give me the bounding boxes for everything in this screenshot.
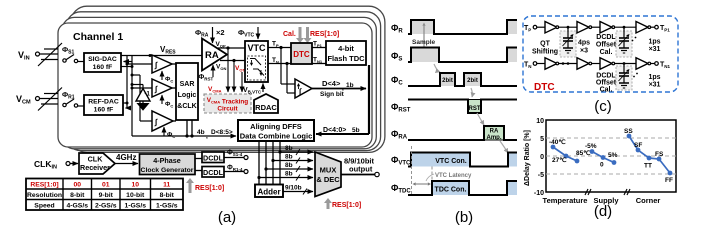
- svg-text:Offset: Offset: [596, 80, 617, 87]
- waveform PHI_S: [411, 48, 439, 63]
- svg-text:TT: TT: [644, 163, 652, 170]
- svg-text:D<4>: D<4>: [322, 79, 341, 88]
- svg-text:1-GS/s: 1-GS/s: [124, 202, 146, 209]
- wire DAC bus vertical 2: [131, 56, 133, 137]
- svg-text:Receiver: Receiver: [80, 163, 110, 172]
- svg-text:00: 00: [73, 181, 81, 188]
- svg-text:RDAC: RDAC: [255, 103, 277, 112]
- buffer B3 top: [600, 21, 612, 33]
- DTC detail dashed border: [523, 16, 678, 92]
- block 4-Phase Clock Generator: [140, 154, 196, 175]
- block VTC: [245, 41, 268, 82]
- wire 8/9/10bit output: [341, 174, 375, 176]
- wire to clock generator: [115, 163, 138, 165]
- wire V_RES: [121, 55, 202, 57]
- wire T_P chain: [537, 26, 545, 28]
- clock PHI_C into comparator 1: [161, 71, 163, 80]
- plot frame: [546, 120, 676, 192]
- svg-text:RES[1:0]: RES[1:0]: [310, 31, 339, 38]
- svg-text:Resolution: Resolution: [27, 192, 62, 199]
- svg-text:4-bit: 4-bit: [338, 44, 354, 53]
- arrow PHI_S to PHI_C: [434, 64, 440, 72]
- svg-text:5: 5: [540, 136, 544, 143]
- wire 8b buses into MUX: [278, 150, 281, 153]
- svg-text:9/10b: 9/10b: [285, 185, 302, 192]
- svg-text:DCDL: DCDL: [203, 154, 224, 163]
- svg-text:Cal.: Cal.: [600, 87, 613, 94]
- svg-text:1ps: 1ps: [648, 39, 660, 46]
- svg-text:Aligning DFFS: Aligning DFFS: [250, 122, 302, 131]
- svg-text:Shifting: Shifting: [532, 49, 558, 56]
- svg-text:RES[1:0]: RES[1:0]: [30, 181, 58, 188]
- wire T_P1: [312, 47, 326, 49]
- svg-text:×31: ×31: [649, 46, 661, 53]
- svg-text:5b: 5b: [352, 127, 360, 134]
- arrow PHI_C to RST: [471, 88, 472, 97]
- svg-text:8b: 8b: [285, 145, 293, 152]
- svg-text:2bit: 2bit: [442, 78, 453, 84]
- svg-text:Offset: Offset: [596, 42, 617, 49]
- comparator 1 (integrator): [152, 55, 172, 73]
- block DCDL 2: [202, 167, 224, 178]
- block REF-DAC: [84, 95, 123, 115]
- block Aligning DFFS Data Combine Logic: [238, 120, 314, 141]
- arrow RA Amp to PHI_VTC: [500, 141, 508, 153]
- svg-text:1b: 1b: [346, 82, 354, 89]
- svg-text:DTC: DTC: [534, 82, 555, 93]
- waveform PHI_R: [411, 20, 434, 34]
- dots ellipsis top: [632, 40, 634, 42]
- block Adder: [255, 185, 283, 198]
- svg-text:D<4:0>: D<4:0>: [323, 127, 346, 134]
- svg-text:Corner: Corner: [636, 196, 661, 205]
- wire V_IN sampling network: [40, 53, 59, 55]
- wire T_P: [268, 47, 291, 49]
- svg-text:0: 0: [540, 154, 544, 161]
- svg-text:4b: 4b: [197, 129, 205, 136]
- svg-text:2bit: 2bit: [467, 78, 478, 84]
- wire D<4:0> 5b bus from TDC to Aligning logic: [368, 65, 370, 134]
- svg-text:01: 01: [102, 181, 110, 188]
- svg-text:Sign bit: Sign bit: [320, 91, 345, 98]
- buffer B1 top: [545, 21, 557, 33]
- node T_P1: [655, 25, 659, 29]
- wire comparator outputs to SAR: [172, 63, 176, 65]
- data series corner: [629, 136, 670, 173]
- channel frame 4: [71, 6, 385, 152]
- svg-text:×3: ×3: [580, 48, 588, 55]
- svg-text:Cal.: Cal.: [283, 31, 296, 38]
- svg-text:8-bit: 8-bit: [160, 192, 175, 199]
- svg-text:REF-DAC: REF-DAC: [88, 99, 119, 106]
- wire comparator input stubs: [132, 87, 152, 89]
- data series temperature: [553, 147, 577, 161]
- svg-text:MUX: MUX: [320, 166, 337, 175]
- block MUX & DEC: [315, 152, 341, 197]
- wire to DCDL 1: [195, 158, 202, 160]
- svg-text:11: 11: [163, 181, 170, 188]
- svg-text:Temperature: Temperature: [543, 196, 588, 205]
- svg-text:4-GS/s: 4-GS/s: [66, 202, 88, 209]
- wire DAC bus vertical 1: [126, 56, 128, 109]
- waveform PHI_VTC: [411, 153, 470, 167]
- wire T_N1: [312, 63, 326, 65]
- arrow RST to RA Amp: [477, 113, 484, 125]
- svg-text:27℃: 27℃: [552, 156, 567, 164]
- signal RES[1:0] into MUX: [324, 198, 332, 209]
- wire to DCDL 2: [195, 170, 202, 172]
- wire arrow into REF-DAC: [126, 107, 128, 109]
- wire arrow into SIG-DAC: [124, 61, 133, 63]
- block DCDL 1: [202, 152, 224, 163]
- svg-text:RST: RST: [469, 106, 481, 112]
- svg-text:4ps: 4ps: [578, 40, 590, 47]
- wire sign bit output D<4>: [312, 88, 366, 90]
- svg-text:Sample: Sample: [412, 39, 436, 46]
- buffer B2 bottom: [577, 58, 589, 70]
- channel frame 1: [58, 23, 372, 147]
- svg-text:FF: FF: [665, 177, 673, 184]
- svg-text:Adder: Adder: [257, 188, 280, 197]
- svg-text:9-bit: 9-bit: [99, 192, 114, 199]
- svg-text:Flash TDC: Flash TDC: [327, 54, 365, 63]
- svg-text:4-Phase: 4-Phase: [153, 156, 181, 165]
- svg-text:Speed: Speed: [34, 202, 54, 209]
- waveform PHI_TDC: [432, 181, 469, 195]
- wire V_OP output: [218, 47, 245, 49]
- svg-text:-1: -1: [145, 92, 151, 98]
- wire taps to V_CMA tracking: [226, 46, 229, 49]
- comparator sign bit: [295, 79, 312, 98]
- wire V_CM sampling network: [40, 98, 59, 100]
- channel frame 2: [62, 17, 376, 148]
- svg-text:,: ,: [349, 129, 351, 136]
- svg-text:×31: ×31: [649, 82, 661, 89]
- svg-text:(a): (a): [218, 209, 236, 226]
- axis break marks: [585, 189, 588, 195]
- svg-text:0: 0: [600, 162, 604, 169]
- block V_CMA Tracking Circuit: [204, 94, 251, 113]
- wire DAC output stubs: [121, 66, 132, 68]
- svg-text:,: ,: [206, 133, 208, 140]
- wire V_ON output: [220, 60, 245, 62]
- svg-text:RES[1:0]: RES[1:0]: [332, 202, 361, 209]
- svg-text:1ps: 1ps: [648, 74, 660, 81]
- svg-text:10: 10: [131, 181, 139, 188]
- svg-text:8b: 8b: [285, 162, 293, 169]
- svg-text:-5: -5: [538, 172, 544, 179]
- plot gridlines: [546, 137, 676, 139]
- channel frame 3: [67, 12, 381, 151]
- block 4-bit Flash TDC: [326, 41, 366, 65]
- table RES/Resolution/Speed: [26, 179, 183, 211]
- svg-text:85℃: 85℃: [576, 149, 591, 157]
- waveform PHI_C with 2bit pulses: [440, 73, 455, 86]
- waveform PHI_RA with RA Amp pulse: [484, 126, 504, 140]
- annotation VTC latency: [411, 146, 413, 196]
- svg-text:DCDL: DCDL: [596, 73, 616, 80]
- clock PHI_C into comparator 3: [163, 127, 165, 136]
- amplifier -1 (inverter): [136, 89, 150, 102]
- wire 4b D<8:5> bus to Aligning logic: [132, 135, 236, 137]
- svg-text:-40℃: -40℃: [549, 138, 566, 146]
- wire T_N: [268, 63, 291, 65]
- svg-text:4GHz: 4GHz: [116, 153, 136, 162]
- comparator 2 (integrator): [152, 79, 172, 97]
- ground below -1 amp: [142, 101, 144, 104]
- amplifier RA: [202, 39, 227, 71]
- svg-text:D<8:5>: D<8:5>: [211, 129, 233, 136]
- wire SAR data verticals: [186, 120, 188, 136]
- svg-text:Clock Generator: Clock Generator: [141, 167, 194, 174]
- block SIG-DAC: [84, 53, 121, 72]
- buffer B1 bottom: [545, 58, 557, 70]
- svg-text:output: output: [349, 165, 373, 174]
- clock PHI_C into comparator 2: [161, 95, 163, 104]
- svg-text:ΔDelay Ratio [%]: ΔDelay Ratio [%]: [524, 130, 531, 186]
- svg-text:8-bit: 8-bit: [70, 192, 85, 199]
- buffer B3 bottom: [600, 58, 612, 70]
- wire 9/10b bus Adder to MUX: [283, 191, 313, 193]
- dots ellipsis bottom: [633, 76, 635, 78]
- capacitor DCDL offset cal top: [623, 26, 626, 29]
- svg-text:DCDL: DCDL: [203, 168, 224, 177]
- svg-text:RA: RA: [205, 50, 219, 61]
- svg-text:5%: 5%: [608, 152, 618, 159]
- svg-text:RES[1:0]: RES[1:0]: [195, 185, 224, 192]
- svg-text:RA: RA: [490, 129, 499, 135]
- svg-text:DCDL: DCDL: [596, 34, 616, 41]
- svg-text:Cal.: Cal.: [600, 49, 613, 56]
- svg-text:Channel 1: Channel 1: [73, 31, 123, 43]
- svg-text:FS: FS: [655, 151, 664, 158]
- svg-text:8b: 8b: [285, 171, 293, 178]
- buffer B4 bottom: [636, 58, 648, 70]
- svg-text:QT: QT: [540, 41, 550, 48]
- svg-text:(d): (d): [594, 203, 612, 220]
- buffer B4 top: [636, 21, 648, 33]
- svg-text:2-GS/s: 2-GS/s: [95, 202, 117, 209]
- svg-text:10: 10: [536, 118, 544, 125]
- annotation Sample: [423, 26, 425, 41]
- signal RES[1:0] into clock generator: [186, 178, 194, 193]
- svg-text:SIG-DAC: SIG-DAC: [88, 56, 117, 63]
- svg-text:(b): (b): [455, 209, 473, 226]
- svg-text:×2: ×2: [216, 28, 225, 37]
- svg-text:Amp.: Amp.: [487, 135, 502, 141]
- svg-text:&CLK: &CLK: [177, 103, 196, 110]
- svg-text:SAR: SAR: [180, 81, 195, 88]
- svg-text:160 fF: 160 fF: [94, 107, 114, 114]
- block SAR Logic &CLK: [176, 63, 198, 120]
- svg-text:VTC Con.: VTC Con.: [435, 158, 467, 165]
- svg-text:Logic: Logic: [178, 92, 197, 99]
- node T_N1: [655, 62, 659, 66]
- svg-text:SF: SF: [634, 142, 642, 149]
- block DTC: [291, 43, 312, 64]
- svg-text:-5%: -5%: [585, 143, 597, 150]
- buffer B2 top: [577, 21, 589, 33]
- svg-text:10-bit: 10-bit: [126, 192, 145, 199]
- svg-text:8b: 8b: [285, 154, 293, 161]
- svg-text:DTC: DTC: [293, 50, 310, 59]
- svg-text:Circuit: Circuit: [217, 106, 238, 113]
- wire taps to sign comparator: [279, 46, 282, 49]
- svg-text:TDC Con.: TDC Con.: [435, 187, 467, 194]
- svg-text:& DEC: & DEC: [316, 175, 340, 184]
- svg-text:SS: SS: [624, 128, 633, 135]
- svg-text:1-GS/s: 1-GS/s: [156, 202, 178, 209]
- capacitor QT shifting: [567, 26, 570, 29]
- capacitor DCDL offset cal bottom: [623, 62, 626, 65]
- svg-text:160 fF: 160 fF: [93, 64, 113, 71]
- svg-text:VTC Latency: VTC Latency: [435, 173, 472, 179]
- svg-text:VTC: VTC: [248, 43, 267, 53]
- svg-text:(c): (c): [594, 98, 612, 115]
- wire data verticals from Aligning logic: [258, 141, 260, 185]
- wire T_N chain: [537, 63, 545, 65]
- comparator 3 (integrator): [152, 111, 173, 131]
- data series supply: [592, 152, 614, 163]
- block CLK Receiver: [79, 153, 115, 174]
- block RDAC: [254, 94, 278, 113]
- svg-text:Data Combine Logic: Data Combine Logic: [240, 132, 313, 141]
- waveform PHI_RST with RST pulse: [468, 100, 481, 114]
